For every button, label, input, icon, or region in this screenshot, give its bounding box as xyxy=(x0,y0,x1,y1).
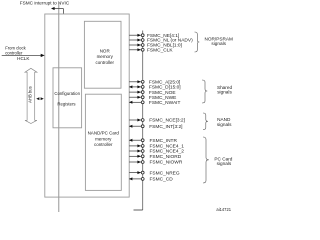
svg-text:signals: signals xyxy=(217,122,232,127)
pin FSMC_INTR (input) xyxy=(129,138,177,144)
brace Shared signals xyxy=(202,80,207,103)
svg-text:FSMC_INTR: FSMC_INTR xyxy=(150,138,178,144)
wire rail bottom stub xyxy=(134,209,143,211)
NOR memory controller block xyxy=(84,21,121,88)
svg-text:controller: controller xyxy=(95,60,114,65)
pin FSMC_CD (input) xyxy=(129,177,173,183)
svg-text:FSMC_NWAIT: FSMC_NWAIT xyxy=(149,100,181,106)
pin FSMC_A[25:0] xyxy=(129,80,180,86)
brace NOR/PSRAM signals xyxy=(195,32,200,52)
brace NAND signals xyxy=(203,113,208,130)
svg-text:FSMC interrupt to NVIC: FSMC interrupt to NVIC xyxy=(20,1,70,6)
svg-text:controller: controller xyxy=(5,51,23,56)
pin FSMC_NIOWR xyxy=(129,160,183,166)
pin FSMC_NWAIT (input) xyxy=(129,100,181,106)
pin FSMC_NCE4_2 xyxy=(129,149,184,155)
wire interrupt stub into FSMC box xyxy=(62,9,64,15)
svg-text:FSMC_NIOWR: FSMC_NIOWR xyxy=(150,160,183,166)
svg-text:FSMC_A[25:0]: FSMC_A[25:0] xyxy=(149,80,180,86)
arrowhead interrupt to NVIC (points left) xyxy=(51,7,55,10)
pin FSMC_NREG xyxy=(129,170,180,176)
svg-text:NAND/PC Card: NAND/PC Card xyxy=(88,131,120,136)
svg-text:FSMC_NCE4_1: FSMC_NCE4_1 xyxy=(150,144,185,150)
pin FSMC_NIORD xyxy=(129,154,182,160)
pin FSMC_NWE xyxy=(129,95,176,101)
svg-text:signals: signals xyxy=(211,41,226,46)
svg-text:controller: controller xyxy=(94,142,113,147)
svg-text:FSMC_NWE: FSMC_NWE xyxy=(149,95,176,101)
NAND/PC Card memory controller block xyxy=(85,94,121,190)
svg-text:FSMC_NOE: FSMC_NOE xyxy=(149,90,176,96)
wire HCLK xyxy=(2,54,41,56)
pin FSMC_NCE[3:2] xyxy=(129,118,185,124)
svg-text:memory: memory xyxy=(97,54,114,59)
svg-text:FSMC_CD: FSMC_CD xyxy=(150,177,174,183)
svg-text:HCLK: HCLK xyxy=(17,56,30,61)
pin FSMC_NL (or NADV) xyxy=(129,38,193,44)
arrowhead HCLK into FSMC (points right) xyxy=(41,54,45,57)
wire AHB to configuration registers (bidirectional) xyxy=(36,97,39,100)
pin FSMC_NCE4_1 xyxy=(129,144,184,150)
brace PC Card signals xyxy=(203,137,209,183)
pin FSMC_NOE xyxy=(129,90,175,96)
svg-text:ai14721: ai14721 xyxy=(216,207,231,212)
wire interrupt vertical long line xyxy=(58,2,60,212)
svg-text:FSMC_NIORD: FSMC_NIORD xyxy=(150,154,182,160)
svg-text:NOR: NOR xyxy=(100,48,111,53)
Configuration Registers block xyxy=(53,68,82,128)
pin rail xyxy=(142,31,144,211)
svg-text:Configuration: Configuration xyxy=(54,91,80,96)
svg-text:signals: signals xyxy=(217,90,232,95)
svg-text:AHB bus: AHB bus xyxy=(27,86,32,103)
svg-text:FSMC_NREG: FSMC_NREG xyxy=(150,170,180,176)
pin FSMC_NE[4:1] xyxy=(129,33,179,39)
pin FSMC_NBL[1:0] xyxy=(129,43,182,49)
pin FSMC_D[15:0] (bidirectional) xyxy=(129,85,181,91)
AHB bus double-headed vertical hollow arrow xyxy=(25,68,37,123)
svg-text:FSMC_D[15:0]: FSMC_D[15:0] xyxy=(149,85,181,91)
svg-text:FSMC_INT[3:2]: FSMC_INT[3:2] xyxy=(149,124,182,130)
svg-text:FSMC_NCE[3:2]: FSMC_NCE[3:2] xyxy=(149,118,185,124)
svg-text:memory: memory xyxy=(95,136,112,141)
pin FSMC_CLK xyxy=(129,48,173,54)
svg-text:FSMC_CLK: FSMC_CLK xyxy=(147,48,173,54)
wire interrupt horizontal segment xyxy=(53,8,64,10)
svg-text:FSMC_NCE4_2: FSMC_NCE4_2 xyxy=(150,149,185,155)
svg-text:signals: signals xyxy=(217,161,232,166)
FSMC outer block xyxy=(45,14,129,197)
pin FSMC_INT[3:2] (input) xyxy=(129,124,183,130)
svg-text:Registers: Registers xyxy=(57,102,75,107)
